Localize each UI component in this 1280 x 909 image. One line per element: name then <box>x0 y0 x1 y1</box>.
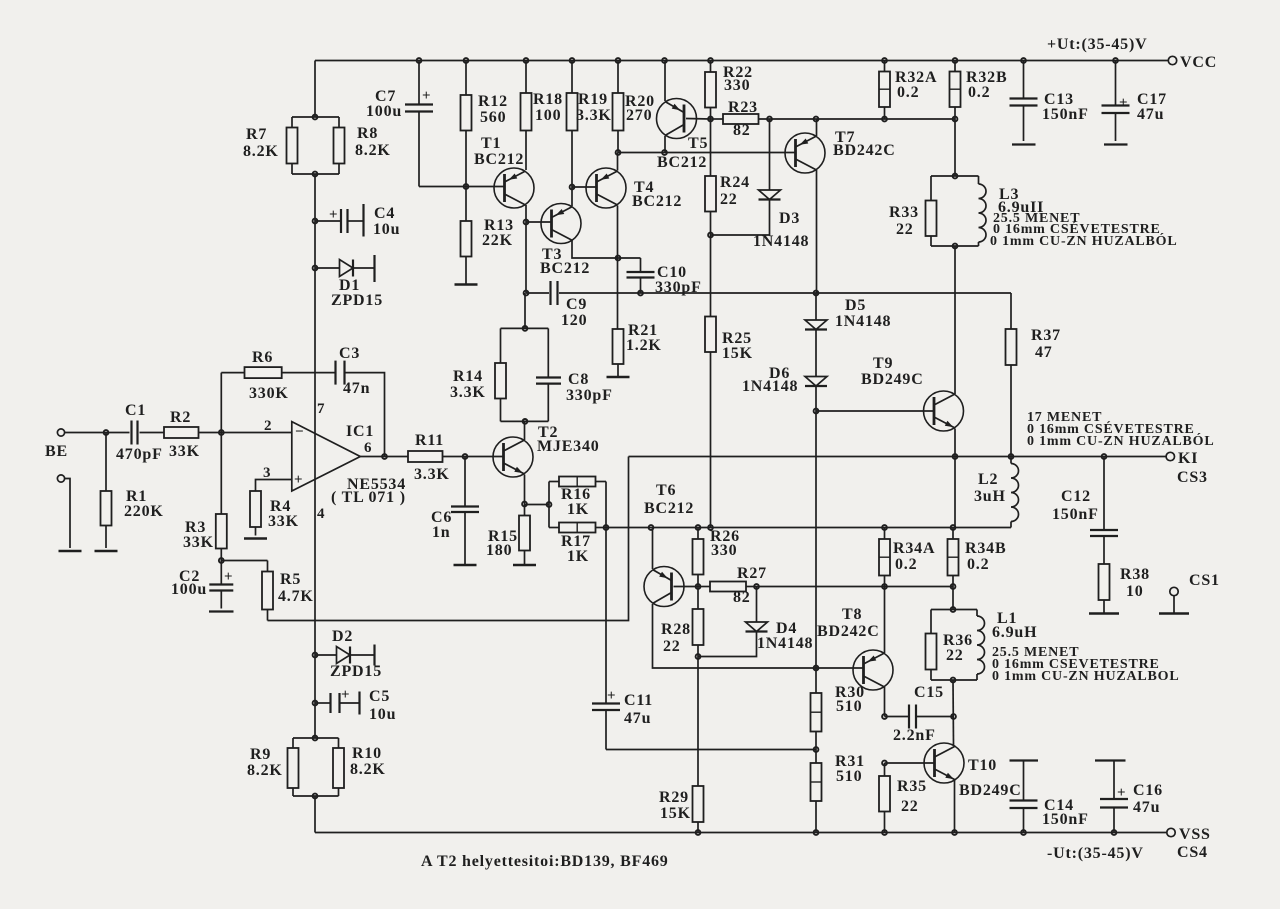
label pin7 <box>317 401 325 417</box>
wire rail2 to C11 <box>605 528 607 704</box>
diode D6 1N4148 <box>805 330 827 387</box>
transistor T8 BD242C <box>853 650 893 690</box>
svg-text:560: 560 <box>480 109 506 126</box>
label C4 <box>373 205 400 238</box>
node R26 rail <box>696 525 701 530</box>
capacitor C8 330pF <box>536 378 561 384</box>
label C2 <box>171 568 207 598</box>
label CS4 <box>1177 844 1208 861</box>
svg-text:C4: C4 <box>374 205 395 222</box>
node R34A bottom <box>882 584 887 589</box>
wire comp row <box>526 292 1011 294</box>
resistor R15 180 <box>519 505 530 566</box>
label R23 <box>728 99 758 139</box>
svg-text:10u: 10u <box>373 221 400 238</box>
node R37 bottom <box>1009 454 1014 459</box>
svg-text:BC212: BC212 <box>540 260 590 277</box>
wire T2e to R16R17 <box>525 504 550 506</box>
node R34A rail <box>882 525 887 530</box>
svg-text:R5: R5 <box>280 571 301 588</box>
svg-text:4.7K: 4.7K <box>278 588 314 605</box>
label plus <box>294 472 303 488</box>
label R11 <box>414 432 450 483</box>
svg-text:R34B: R34B <box>965 540 1006 557</box>
wire input to C1 <box>65 432 130 434</box>
svg-text:BC212: BC212 <box>632 193 682 210</box>
svg-text:1N4148: 1N4148 <box>742 378 798 395</box>
svg-text:+: + <box>224 569 233 585</box>
label R14 <box>450 368 486 401</box>
svg-text:R7: R7 <box>246 126 267 143</box>
node R20 rail <box>616 58 621 63</box>
label L3 winding <box>990 211 1178 249</box>
diode D5 1N4148 <box>805 293 827 330</box>
label R32A <box>895 69 937 101</box>
svg-text:8.2K: 8.2K <box>247 762 283 779</box>
node T6 base node <box>696 584 701 589</box>
svg-text:R24: R24 <box>720 174 750 191</box>
svg-text:150nF: 150nF <box>1042 106 1089 123</box>
capacitor C4 <box>315 204 364 237</box>
svg-text:22: 22 <box>901 798 919 815</box>
label C15 <box>893 684 944 744</box>
resistor R2 33K <box>164 427 199 438</box>
node output-C3 <box>382 454 387 459</box>
wire T8 collector <box>884 687 886 717</box>
label L2 <box>974 471 1006 505</box>
label CS3 <box>1177 469 1208 486</box>
svg-text:3.3K: 3.3K <box>576 107 612 124</box>
wire L3 box <box>931 176 979 246</box>
resistor R11 3.3K <box>408 451 443 462</box>
node R12R13 <box>464 184 469 189</box>
label C13 <box>1042 91 1089 123</box>
node R1 tap <box>104 430 109 435</box>
label VCC <box>1180 54 1217 71</box>
label R3 <box>183 519 214 551</box>
svg-text:0.2: 0.2 <box>967 556 989 573</box>
label R4 <box>268 498 299 530</box>
svg-text:-Ut:(35-45)V: -Ut:(35-45)V <box>1047 845 1144 862</box>
svg-text:47n: 47n <box>343 380 370 397</box>
node D3 top <box>767 117 772 122</box>
op-amp IC1 <box>292 422 361 491</box>
svg-text:+: + <box>1117 785 1126 801</box>
transistor T5 BC212 <box>657 99 697 139</box>
label R9 <box>247 746 283 779</box>
terminal CS1 <box>1170 587 1178 613</box>
svg-text:33K: 33K <box>169 443 200 460</box>
label C8 <box>566 371 613 404</box>
wire T5 collector <box>664 136 666 153</box>
node R9R10 bottom <box>313 794 318 799</box>
label T3 <box>540 246 590 277</box>
resistor R20 270 <box>613 61 624 153</box>
wire C3 to output <box>345 373 385 457</box>
svg-text:6: 6 <box>364 440 372 456</box>
label pin6 <box>364 440 372 456</box>
label R22 <box>723 64 753 94</box>
node T10 rail <box>952 830 957 835</box>
svg-text:R28: R28 <box>661 621 691 638</box>
capacitor C9 120 <box>551 281 558 305</box>
wire pin2 riser <box>220 373 222 433</box>
svg-text:100u: 100u <box>366 103 402 120</box>
transistor T3 BC212 <box>541 204 581 244</box>
node R32B bottom <box>953 117 958 122</box>
label R32B <box>966 69 1007 101</box>
wire R3 to R5 <box>221 560 267 562</box>
svg-text:A T2 helyettesitoi:BD139, BF46: A T2 helyettesitoi:BD139, BF469 <box>421 853 669 870</box>
resistor R31 510 <box>811 750 822 833</box>
node T9 base <box>814 409 819 414</box>
label D4 <box>757 620 813 652</box>
label +Ut:(35-45)V <box>1047 36 1147 53</box>
wire R16R17 right side <box>605 482 607 528</box>
wire T7 collector <box>816 170 818 293</box>
label pin2 <box>264 418 272 434</box>
svg-text:T5: T5 <box>688 135 708 152</box>
resistor R32A 0.2 <box>879 61 890 120</box>
capacitor C17 47u <box>1102 61 1130 145</box>
wire L1 to T10 <box>952 680 955 746</box>
resistor R30 510 <box>811 668 822 750</box>
svg-text:2.2nF: 2.2nF <box>893 727 936 744</box>
label IC1 <box>346 423 374 440</box>
transistor T10 BD249C <box>924 743 964 783</box>
label R29 <box>659 789 691 822</box>
svg-text:47u: 47u <box>1137 106 1164 123</box>
svg-text:150nF: 150nF <box>1042 811 1089 828</box>
label R30 <box>835 684 865 715</box>
svg-text:+: + <box>294 472 303 488</box>
capacitor C5 <box>315 687 360 715</box>
svg-text:3.3K: 3.3K <box>414 466 450 483</box>
svg-text:82: 82 <box>733 122 751 139</box>
wire T7 emitter <box>816 119 818 136</box>
resistor R22 330 <box>705 61 716 120</box>
node T4 base tap <box>570 185 575 190</box>
svg-text:BE: BE <box>45 443 68 460</box>
svg-text:R2: R2 <box>170 409 191 426</box>
node T2 emitter <box>522 502 527 507</box>
wire R9R10 box <box>293 738 339 796</box>
label NE5534 <box>347 476 406 493</box>
label pin3 <box>263 465 271 481</box>
label C1 <box>116 402 163 463</box>
svg-text:8.2K: 8.2K <box>350 761 386 778</box>
capacitor C14 150nF <box>1010 761 1039 833</box>
label R35 <box>897 778 927 815</box>
inductor L2 3uH <box>1011 457 1019 528</box>
label L3 <box>998 186 1044 216</box>
svg-text:CS1: CS1 <box>1189 572 1220 589</box>
diode D2 ZPD15 <box>315 645 375 666</box>
label C6 <box>431 509 452 541</box>
node R16R17 left <box>547 502 552 507</box>
terminal input gnd <box>57 475 64 482</box>
node C10 bottom <box>638 291 643 296</box>
wire T10 base <box>885 762 935 764</box>
label BE <box>45 443 68 460</box>
wire T9 collector <box>954 393 956 395</box>
wire R14C8 box <box>501 328 549 421</box>
label R13 <box>482 217 514 249</box>
label R34B <box>965 540 1006 573</box>
wire output to R5 <box>268 457 629 621</box>
node L1 bottom <box>951 678 956 683</box>
svg-text:R35: R35 <box>897 778 927 795</box>
node inverting input <box>219 430 224 435</box>
svg-text:1n: 1n <box>432 524 451 541</box>
capacitor C7 100u <box>405 61 433 187</box>
node R32A rail <box>882 58 887 63</box>
wire input gnd <box>65 479 70 549</box>
diode D1 ZPD15 <box>315 255 375 282</box>
svg-text:C15: C15 <box>914 684 944 701</box>
resistor R21 1.2K <box>613 329 624 377</box>
svg-text:BD249C: BD249C <box>861 371 924 388</box>
svg-text:MJE340: MJE340 <box>537 438 600 455</box>
svg-text:R18: R18 <box>533 91 563 108</box>
svg-text:C3: C3 <box>339 345 360 362</box>
wire T8 emitter <box>884 587 886 654</box>
node C14 rail <box>1021 830 1026 835</box>
svg-text:22: 22 <box>720 191 738 208</box>
wire T3 collector <box>572 241 641 259</box>
node D1 tap <box>313 266 318 271</box>
capacitor C13 150nF <box>1010 61 1038 145</box>
node L1 top <box>951 607 956 612</box>
svg-text:47u: 47u <box>1133 799 1160 816</box>
svg-text:15K: 15K <box>660 805 691 822</box>
label T5 <box>657 135 708 171</box>
svg-text:VCC: VCC <box>1180 54 1217 71</box>
svg-text:150nF: 150nF <box>1052 506 1099 523</box>
svg-text:0 1mm CU-ZN HUZALBÓL: 0 1mm CU-ZN HUZALBÓL <box>1027 432 1215 449</box>
svg-text:L2: L2 <box>978 471 998 488</box>
resistor R14 3.3K <box>495 363 506 399</box>
node R7R8 bottom <box>313 172 318 177</box>
svg-text:470pF: 470pF <box>116 446 163 463</box>
svg-text:330K: 330K <box>249 385 289 402</box>
svg-text:IC1: IC1 <box>346 423 374 440</box>
wire T2 collector <box>524 421 526 440</box>
resistor R4 33K <box>250 491 261 536</box>
label T9 <box>861 355 924 388</box>
svg-text:R37: R37 <box>1031 327 1061 344</box>
resistor R1 220K <box>101 433 112 549</box>
label T4 <box>632 179 682 210</box>
svg-text:R8: R8 <box>357 125 378 142</box>
wire left bus mid <box>314 174 316 738</box>
node R35 rail <box>882 830 887 835</box>
svg-text:ZPD15: ZPD15 <box>330 663 382 680</box>
ground R21 <box>607 376 630 379</box>
node D2 tap <box>313 653 318 658</box>
wire L1 box <box>931 610 977 681</box>
label T7 <box>833 129 896 159</box>
svg-text:1K: 1K <box>567 548 589 565</box>
svg-text:0.2: 0.2 <box>968 84 990 101</box>
node R9R10 top <box>313 736 318 741</box>
svg-text:1K: 1K <box>567 501 589 518</box>
resistor R6 330K <box>245 367 282 378</box>
node C15 left <box>882 714 887 719</box>
wire KI line <box>629 456 1167 458</box>
label R38 <box>1120 566 1150 600</box>
label C5 <box>369 688 396 723</box>
label T6 <box>644 482 694 517</box>
resistor R37 47 <box>1006 293 1017 457</box>
node L3 top <box>953 174 958 179</box>
resistor R35 22 <box>879 763 890 833</box>
wire left bus upper <box>314 61 316 118</box>
svg-text:510: 510 <box>836 698 862 715</box>
label T2 <box>537 424 600 455</box>
svg-text:( TL 071 ): ( TL 071 ) <box>331 489 406 506</box>
svg-text:+: + <box>1119 95 1128 111</box>
wire R11 to T2 <box>443 456 504 458</box>
node R24 bottom <box>708 233 713 238</box>
node R34B rail <box>951 525 956 530</box>
label R18 <box>533 91 563 124</box>
capacitor C1 470pF <box>132 421 138 445</box>
wire opamp out <box>360 456 408 458</box>
svg-text:7: 7 <box>317 401 325 417</box>
node T7 collector <box>814 291 819 296</box>
svg-text:120: 120 <box>561 312 587 329</box>
node R12 rail <box>464 58 469 63</box>
svg-text:CS4: CS4 <box>1177 844 1208 861</box>
svg-text:+Ut:(35-45)V: +Ut:(35-45)V <box>1047 36 1147 53</box>
label D5 <box>835 297 891 330</box>
svg-text:33K: 33K <box>268 513 299 530</box>
label R7 <box>243 126 279 160</box>
wire R2 to opamp pin2 <box>199 432 292 434</box>
label -Ut:(35-45)V <box>1047 845 1144 862</box>
svg-text:D2: D2 <box>332 628 353 645</box>
node C4 tap <box>313 219 318 224</box>
transistor T6 BC212 <box>644 567 684 607</box>
svg-text:−: − <box>295 424 304 440</box>
label CS1 <box>1189 572 1220 589</box>
svg-text:270: 270 <box>626 107 652 124</box>
svg-text:47: 47 <box>1035 344 1053 361</box>
svg-text:330pF: 330pF <box>566 387 613 404</box>
capacitor C10 330pF <box>627 272 655 293</box>
node R29 rail <box>696 830 701 835</box>
node R32A bottom <box>882 117 887 122</box>
svg-text:3.3K: 3.3K <box>450 384 486 401</box>
svg-text:+: + <box>341 687 350 703</box>
terminal VCC <box>1168 56 1176 64</box>
svg-text:220K: 220K <box>124 503 164 520</box>
wire T4 emitter <box>617 153 619 171</box>
resistor R8 <box>334 128 345 164</box>
wire T5 base <box>686 118 711 121</box>
label C12 <box>1052 488 1099 523</box>
capacitor C11 47u <box>592 688 620 750</box>
node T3 base <box>524 220 529 225</box>
label C9 <box>561 296 587 329</box>
svg-text:BD242C: BD242C <box>817 623 880 640</box>
capacitor C12 150nF <box>1090 457 1118 565</box>
svg-text:0.2: 0.2 <box>895 556 917 573</box>
svg-text:R38: R38 <box>1120 566 1150 583</box>
node C15 right <box>951 714 956 719</box>
node R32B rail <box>953 58 958 63</box>
node T9 emitter out <box>953 454 958 459</box>
resistor R5 4.7K <box>262 561 273 621</box>
label R16 <box>561 486 591 518</box>
node R22 rail <box>708 58 713 63</box>
resistor R10 <box>333 748 344 788</box>
svg-text:22: 22 <box>896 221 914 238</box>
wire C11 row <box>606 749 816 751</box>
label VSS <box>1179 826 1211 843</box>
label D1 <box>331 277 383 309</box>
svg-text:T10: T10 <box>968 757 997 774</box>
resistor R9 <box>288 748 299 788</box>
svg-text:1N4148: 1N4148 <box>753 233 809 250</box>
label pin4 <box>317 506 325 522</box>
label C16 <box>1133 782 1163 816</box>
label R25 <box>722 330 753 362</box>
resistor R26 330 <box>693 528 704 587</box>
svg-text:R33: R33 <box>889 204 919 221</box>
label TL071 <box>331 489 406 506</box>
svg-text:BD242C: BD242C <box>833 142 896 159</box>
svg-text:4: 4 <box>317 506 325 522</box>
node C5 tap <box>313 701 318 706</box>
svg-text:C11: C11 <box>624 692 653 709</box>
svg-text:33K: 33K <box>183 534 214 551</box>
wire box to C9 <box>524 293 526 328</box>
svg-text:8.2K: 8.2K <box>243 143 279 160</box>
label minus <box>295 424 304 440</box>
svg-text:1N4148: 1N4148 <box>835 313 891 330</box>
svg-text:C12: C12 <box>1061 488 1091 505</box>
svg-text:+: + <box>607 688 616 704</box>
ground R38 <box>1089 612 1119 615</box>
svg-text:BC212: BC212 <box>644 500 694 517</box>
svg-text:T9: T9 <box>873 355 893 372</box>
svg-text:3uH: 3uH <box>974 488 1006 505</box>
ground R13 <box>455 283 478 286</box>
svg-text:330: 330 <box>724 77 750 94</box>
diode D4 1N4148 <box>698 587 768 657</box>
wire pin3 <box>256 480 292 492</box>
label R5 <box>278 571 314 605</box>
label T1 <box>474 135 524 168</box>
svg-text:BC212: BC212 <box>657 154 707 171</box>
label D3 <box>753 210 809 250</box>
svg-text:C8: C8 <box>568 371 589 388</box>
terminal VSS <box>1167 828 1175 836</box>
transistor T2 MJE340 <box>493 437 533 477</box>
svg-text:180: 180 <box>486 542 512 559</box>
label R28 <box>661 621 691 655</box>
label L1 <box>992 610 1037 641</box>
node R7R8 top <box>313 115 318 120</box>
wire bias chain down <box>815 411 817 668</box>
svg-text:R23: R23 <box>728 99 758 116</box>
label C10 <box>655 264 702 296</box>
label T8 <box>817 606 880 640</box>
ground R15 <box>513 564 536 567</box>
resistor R18 100 <box>521 61 532 171</box>
